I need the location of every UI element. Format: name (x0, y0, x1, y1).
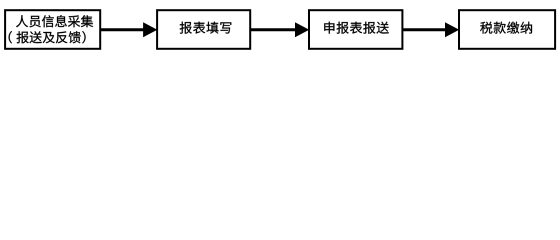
process box 2: 报表填写 (157, 10, 250, 49)
process box 3: 申报表报送 (309, 10, 402, 49)
box 2 label: 报表填写 (180, 22, 232, 34)
box 3 label: 申报表报送 (324, 22, 389, 34)
box 1 label line 2 close paren: ） (82, 31, 85, 43)
box 4 label: 税款缴纳 (480, 22, 532, 34)
process box 1: 人员信息采集（报送及反馈） (5, 10, 100, 49)
arrow 3: box 3 to box 4 (402, 22, 459, 37)
box 1 label line 2: 报送及反馈 (17, 31, 81, 43)
process box 4: 税款缴纳 (459, 10, 555, 49)
arrow 2: box 2 to box 3 (250, 22, 309, 37)
box 1 label line 2 open paren: （ (9, 31, 12, 43)
arrow 1: box 1 to box 2 (100, 22, 157, 37)
box 1 label line 1: 人员信息采集 (16, 15, 93, 27)
